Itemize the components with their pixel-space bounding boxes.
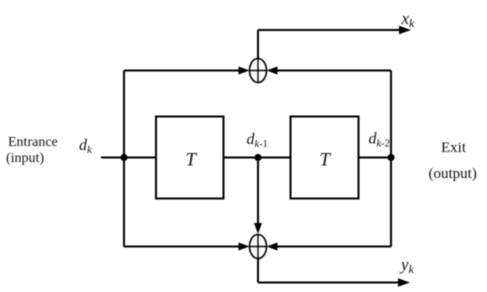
svg-text:(output): (output) xyxy=(429,166,477,182)
wire top-left horizontal into top adder xyxy=(124,67,250,75)
wire left vertical down xyxy=(123,158,125,247)
svg-text:xk: xk xyxy=(401,9,416,30)
wire register2 output xyxy=(359,157,392,159)
node d_k-2 tap xyxy=(387,154,394,161)
wire d_k-1 vertical down into bottom adder xyxy=(254,158,262,235)
wire right vertical xyxy=(390,71,392,247)
label Exit (output) xyxy=(429,140,477,182)
adder U2 bottom XOR xyxy=(250,235,267,259)
wire top adder output riser xyxy=(257,30,259,59)
svg-text:Exit: Exit xyxy=(441,140,467,156)
wire top feedback horizontal into top adder xyxy=(267,67,392,75)
svg-text:T: T xyxy=(186,150,198,171)
wire bottom-left horizontal into bottom adder xyxy=(124,243,250,251)
delay register T1 box xyxy=(156,117,224,199)
wire y_k output arrow xyxy=(258,278,410,286)
label Entrance (input) xyxy=(6,135,58,166)
wire between registers xyxy=(224,157,291,159)
wire left vertical up xyxy=(123,71,125,158)
svg-text:T: T xyxy=(320,150,332,171)
svg-text:dk: dk xyxy=(79,137,93,156)
svg-text:dk-2: dk-2 xyxy=(369,131,390,150)
delay register T2 box xyxy=(291,117,359,199)
svg-text:(input): (input) xyxy=(6,151,44,166)
adder U1 top XOR xyxy=(250,59,267,83)
wire x_k output arrow xyxy=(258,26,411,34)
node input tap xyxy=(120,154,127,161)
wire bottom adder output drop xyxy=(257,259,259,283)
svg-text:dk-1: dk-1 xyxy=(247,131,268,150)
wire bottom feedback horizontal into bottom adder xyxy=(267,243,392,251)
node d_k-1 tap xyxy=(254,154,261,161)
svg-text:yk: yk xyxy=(399,255,415,276)
svg-text:Entrance: Entrance xyxy=(8,135,58,150)
wire input horizontal xyxy=(101,157,156,159)
